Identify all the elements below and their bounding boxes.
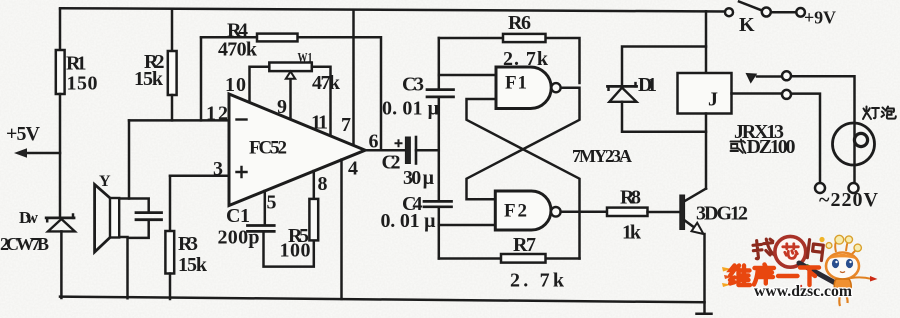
- svg-text:6: 6: [369, 131, 379, 153]
- svg-text:11: 11: [311, 112, 328, 134]
- svg-text:100: 100: [280, 240, 311, 262]
- svg-text:C2: C2: [382, 152, 401, 174]
- svg-text:0. 01 μ: 0. 01 μ: [382, 98, 440, 120]
- svg-text:15k: 15k: [134, 68, 164, 90]
- svg-text:R6: R6: [508, 12, 531, 34]
- svg-text:~220V: ~220V: [819, 189, 879, 211]
- svg-text:8: 8: [318, 173, 328, 195]
- svg-text:K: K: [739, 14, 755, 36]
- svg-text:3DG12: 3DG12: [696, 203, 748, 225]
- svg-text:J: J: [708, 89, 718, 111]
- svg-text:W1: W1: [298, 51, 313, 66]
- svg-text:200p: 200p: [218, 227, 260, 249]
- svg-text:30 μ: 30 μ: [403, 167, 435, 189]
- svg-text:F2: F2: [504, 201, 527, 222]
- svg-text:10: 10: [225, 74, 246, 96]
- svg-text:Y: Y: [99, 173, 111, 190]
- svg-text:+5V: +5V: [6, 123, 41, 145]
- svg-text:R7: R7: [513, 234, 536, 256]
- svg-text:DZ100: DZ100: [747, 136, 796, 158]
- svg-text:150: 150: [67, 73, 98, 95]
- svg-text:7MY23A: 7MY23A: [572, 146, 632, 166]
- svg-text:15k: 15k: [178, 254, 208, 276]
- svg-text:2. 7k: 2. 7k: [503, 48, 549, 70]
- svg-text:R1: R1: [66, 53, 87, 75]
- svg-text:7: 7: [341, 114, 351, 136]
- svg-text:www.dzsc.com: www.dzsc.com: [754, 283, 852, 300]
- svg-text:0. 01 μ: 0. 01 μ: [381, 210, 437, 232]
- svg-text:1k: 1k: [622, 222, 642, 244]
- svg-text:2CW7B: 2CW7B: [0, 234, 49, 254]
- svg-text:9: 9: [277, 96, 287, 118]
- svg-text:3: 3: [213, 158, 223, 180]
- svg-text:R8: R8: [620, 187, 641, 209]
- svg-text:FC52: FC52: [249, 138, 287, 159]
- svg-text:Dw: Dw: [19, 208, 39, 227]
- svg-text:470k: 470k: [218, 39, 258, 61]
- svg-text:D1: D1: [638, 74, 657, 96]
- svg-text:4: 4: [348, 158, 358, 180]
- svg-text:47k: 47k: [312, 72, 341, 94]
- svg-text:F1: F1: [505, 73, 527, 94]
- svg-text:5: 5: [267, 192, 277, 214]
- svg-text:R3: R3: [178, 233, 198, 255]
- svg-text:+9V: +9V: [804, 8, 836, 28]
- svg-text:C1: C1: [226, 205, 250, 227]
- svg-text:C3: C3: [402, 74, 424, 96]
